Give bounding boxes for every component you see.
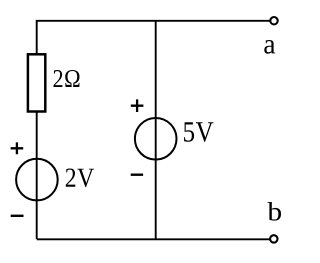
wire: left branch lower segment through 2V source [36, 112, 38, 240]
voltage source V2 minus polarity mark [131, 173, 143, 175]
voltage source V2 value label 5V [184, 122, 213, 142]
wire: bottom rail to terminal b [37, 238, 271, 240]
resistor R1 body [28, 54, 45, 111]
node label b [267, 202, 281, 221]
wire: top rail from resistor top-left up and across to terminal a [37, 21, 271, 54]
node label a [264, 40, 275, 54]
terminal b open circle [270, 235, 277, 242]
voltage source V1 minus polarity mark [11, 215, 24, 217]
wire: middle branch vertical (node between top and bottom rails) [155, 21, 157, 240]
voltage source V1 value label 2V [66, 169, 94, 188]
voltage source V2 plus polarity mark [131, 99, 144, 112]
resistor R1 value label 2Ω [54, 70, 80, 87]
voltage source V2 circle [135, 118, 177, 160]
terminal a open circle [270, 17, 277, 24]
voltage source V1 circle [16, 159, 58, 201]
voltage source V1 plus polarity mark [11, 142, 24, 154]
